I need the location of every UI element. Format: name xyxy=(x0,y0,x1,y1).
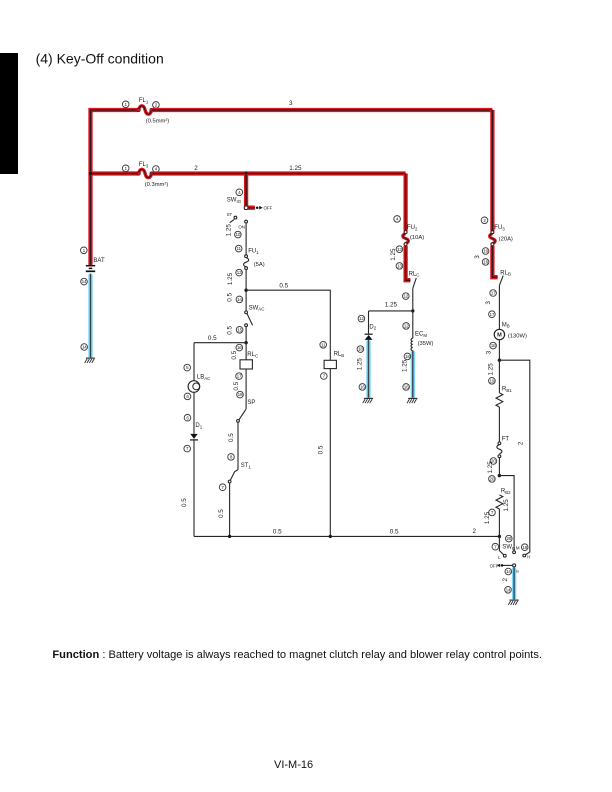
svg-text:0.5: 0.5 xyxy=(279,283,288,290)
wire node to RLC coil xyxy=(245,343,247,360)
blower switch SWB medium contact M xyxy=(513,546,520,554)
connector 18 xyxy=(490,342,497,349)
svg-text:SP: SP xyxy=(247,400,255,406)
connector (ECM ground) xyxy=(403,384,410,391)
diode D1 (cathode down) xyxy=(190,434,198,440)
connector 8 xyxy=(228,454,235,461)
connector 6b xyxy=(184,414,191,421)
svg-text:17: 17 xyxy=(237,374,242,379)
connector 1 (FL1 left) xyxy=(122,101,129,108)
svg-text:10: 10 xyxy=(236,232,241,237)
relay coil RLB (blower relay) xyxy=(324,360,336,368)
battery BAT xyxy=(86,266,95,272)
relay coil RLC (magnet clutch relay) xyxy=(240,360,252,369)
svg-text:ST1: ST1 xyxy=(241,463,252,469)
svg-text:H: H xyxy=(527,554,530,559)
connector 10 xyxy=(235,231,242,238)
connector (below FU3) xyxy=(482,248,489,255)
svg-text:M: M xyxy=(497,332,502,338)
svg-text:ECM: ECM xyxy=(415,332,427,338)
svg-text:1.25: 1.25 xyxy=(227,272,234,285)
connector 11 xyxy=(235,245,242,252)
wire lamp branch xyxy=(193,343,195,381)
svg-text:1.25: 1.25 xyxy=(503,499,510,512)
junction FT output node xyxy=(498,474,501,477)
svg-text:SWB: SWB xyxy=(502,545,515,551)
svg-text:ON: ON xyxy=(238,224,245,229)
connector 12 (D2) xyxy=(358,315,365,322)
svg-text:OFF: OFF xyxy=(264,206,273,211)
connector (SWB ground lower) xyxy=(505,587,512,594)
svg-text:BAT: BAT xyxy=(93,258,105,264)
svg-text:16: 16 xyxy=(404,384,409,389)
svg-text:FU2: FU2 xyxy=(407,225,418,231)
wire node to resistor RB1 xyxy=(498,360,500,393)
connector (battery ground upper) xyxy=(81,278,88,285)
svg-text:14: 14 xyxy=(82,345,87,350)
wire ST1 to bottom bus xyxy=(229,483,231,537)
wire junction to A/C switch xyxy=(245,290,247,311)
svg-text:0.5: 0.5 xyxy=(208,335,217,342)
switch position pointer OFF xyxy=(256,206,263,210)
svg-text:2: 2 xyxy=(472,528,476,535)
svg-text:RLB: RLB xyxy=(334,352,345,358)
svg-text:0.5: 0.5 xyxy=(226,326,233,335)
wire RB1 to fusible thermo FT xyxy=(498,407,500,442)
wire to blower relay coil RLB xyxy=(246,290,330,360)
svg-text:OFF: OFF xyxy=(490,563,499,568)
wire drop to ignition switch (bold red) xyxy=(246,174,255,208)
svg-text:14: 14 xyxy=(506,587,511,592)
wire node to lamp branch xyxy=(194,342,246,344)
blower switch SWB common pole + OFF pointer xyxy=(497,564,516,567)
wire ground lead (battery ground lead, blue highlight) xyxy=(88,274,92,358)
fusible link FL1 xyxy=(137,106,153,114)
svg-text:M: M xyxy=(516,546,520,551)
wire second bus (bold red) xyxy=(152,171,406,175)
svg-text:0.5: 0.5 xyxy=(231,350,238,359)
svg-text:3: 3 xyxy=(289,100,293,107)
svg-text:FT: FT xyxy=(502,437,510,443)
svg-text:SWAC: SWAC xyxy=(249,305,265,311)
wire battery positive lead + top bus left (bold red) xyxy=(91,110,139,265)
wire ground lead (ECM ground lead, blue highlight) xyxy=(411,351,415,398)
svg-text:(20A): (20A) xyxy=(499,236,513,242)
svg-text:18: 18 xyxy=(238,392,243,397)
svg-text:15: 15 xyxy=(237,327,242,332)
svg-text:(0.3mm²): (0.3mm²) xyxy=(145,182,169,188)
svg-text:(5A): (5A) xyxy=(254,262,265,268)
connector 1 (battery) xyxy=(81,247,88,254)
relay contact RLB (open blade) xyxy=(499,276,503,286)
svg-text:LBAC: LBAC xyxy=(197,375,210,381)
ground (battery) xyxy=(85,358,95,363)
connector 4 (above SWIG) xyxy=(236,189,243,196)
connector (SWB ground upper) xyxy=(505,568,512,575)
wire RLB coil to bottom bus xyxy=(329,369,331,537)
fuse FU2 (red) xyxy=(403,231,409,246)
connector (below FU2) xyxy=(396,246,403,253)
wire RLB contact to blower motor xyxy=(498,285,500,329)
wire lamp to diode D1 xyxy=(193,392,195,434)
svg-text:0.5: 0.5 xyxy=(390,529,399,536)
fuse FU1 xyxy=(244,255,249,270)
svg-text:14: 14 xyxy=(82,279,87,284)
svg-text:3: 3 xyxy=(486,350,493,354)
wire RLC coil to pressure switch SP xyxy=(245,369,247,409)
svg-text:FL3: FL3 xyxy=(139,162,149,168)
svg-text:2: 2 xyxy=(517,441,524,445)
svg-text:0.5: 0.5 xyxy=(318,445,325,454)
connector 4 (above FU2) xyxy=(394,216,401,223)
wire top bus to fuse FU3 (bold red) xyxy=(490,110,494,231)
connector (right of bus end) xyxy=(506,535,513,542)
connector 12 xyxy=(403,293,410,300)
connector 17 xyxy=(490,290,497,297)
ground (SWB) xyxy=(508,600,518,605)
svg-text:1.25: 1.25 xyxy=(487,363,494,376)
connector 1 (FL3 left) xyxy=(122,165,129,172)
thermo switch ST1 xyxy=(228,470,238,483)
svg-text:(10A): (10A) xyxy=(410,235,424,241)
svg-text:SWIG: SWIG xyxy=(227,198,242,204)
connector (above RLC contact) xyxy=(396,263,403,270)
junction motor output node xyxy=(498,359,501,362)
wire SP to thermo switch ST1 xyxy=(237,422,239,469)
connector 2 (FL1 right) xyxy=(153,102,160,109)
junction second bus / ignition switch drop xyxy=(244,172,247,175)
wire D1 to bottom bus xyxy=(193,441,195,537)
SWIG ON contact xyxy=(238,220,247,229)
blower motor MB xyxy=(494,329,504,339)
svg-text:12: 12 xyxy=(403,294,408,299)
junction RLB/bus xyxy=(329,535,332,538)
wire FU3 to RLB contact (bold red) xyxy=(492,246,497,277)
junction FU1 output node xyxy=(244,289,247,292)
connector (above ECM) xyxy=(403,323,410,330)
connector (below RB2) xyxy=(489,509,496,516)
connector 7 xyxy=(219,484,226,491)
ground (D2) xyxy=(363,398,373,403)
pressure switch SP (closed blade) xyxy=(237,409,246,422)
ignition switch SWIG common terminal xyxy=(244,206,248,210)
svg-text:FU3: FU3 xyxy=(494,225,505,231)
relay contact RLC (open blade) xyxy=(413,278,416,288)
svg-text:13: 13 xyxy=(397,263,402,268)
wire second bus left (bold red) xyxy=(91,171,139,175)
svg-text:14: 14 xyxy=(237,297,242,302)
wire FU1 to junction xyxy=(245,270,247,291)
wire ground lead (D2 ground lead, blue highlight) xyxy=(366,340,370,398)
svg-text:12: 12 xyxy=(359,316,364,321)
connector (above RLB coil) xyxy=(320,342,327,349)
svg-text:MB: MB xyxy=(502,322,510,328)
svg-text:(130W): (130W) xyxy=(508,333,527,339)
svg-text:(0.5mm²): (0.5mm²) xyxy=(146,119,170,125)
svg-text:RB2: RB2 xyxy=(501,489,511,495)
wire SWAC to node xyxy=(245,327,247,343)
connector (above RLB contact) xyxy=(482,259,489,266)
svg-text:18: 18 xyxy=(491,343,496,348)
svg-text:16: 16 xyxy=(237,345,242,350)
svg-text:B: B xyxy=(516,568,519,573)
svg-text:1.25: 1.25 xyxy=(484,511,491,524)
svg-text:2: 2 xyxy=(502,578,509,582)
svg-text:1.25: 1.25 xyxy=(401,359,408,372)
section tab bar xyxy=(0,53,18,174)
svg-text:D2: D2 xyxy=(369,324,376,330)
svg-text:18: 18 xyxy=(405,354,410,359)
svg-text:20: 20 xyxy=(490,476,495,481)
junction ST1/bus xyxy=(228,535,231,538)
blower switch SWB low contact L xyxy=(498,536,506,559)
svg-text:RLC: RLC xyxy=(409,271,420,277)
svg-text:1.25: 1.25 xyxy=(385,302,398,309)
svg-text:0.5: 0.5 xyxy=(228,433,235,442)
fusible link FL3 xyxy=(137,169,153,177)
connector 7 (below D1) xyxy=(184,445,191,452)
SWIG ST contact xyxy=(227,212,237,223)
svg-text:2: 2 xyxy=(194,165,198,172)
connector 2 (above FU3) xyxy=(481,217,488,224)
wire bottom control bus xyxy=(194,535,500,537)
wire top bus to right column (bold red) xyxy=(152,108,493,112)
svg-text:17: 17 xyxy=(491,291,496,296)
ground (ECM) xyxy=(407,398,417,403)
connector (left of SWB) xyxy=(492,543,499,550)
connector 20 xyxy=(490,458,497,465)
svg-text:RLB: RLB xyxy=(500,270,511,276)
connector (below ECM) xyxy=(404,353,411,360)
resistor RB2 xyxy=(496,495,503,509)
page number xyxy=(274,759,313,771)
svg-text:16: 16 xyxy=(483,249,488,254)
connector 17 xyxy=(236,373,243,380)
wire RLC contact to node xyxy=(412,288,414,311)
wire RB2 to bottom bus xyxy=(498,509,500,536)
svg-text:13: 13 xyxy=(237,270,242,275)
svg-text:17: 17 xyxy=(490,312,495,317)
connector 18 xyxy=(237,391,244,398)
svg-text:FL1: FL1 xyxy=(139,98,149,104)
svg-text:1.25: 1.25 xyxy=(487,461,494,474)
svg-text:19: 19 xyxy=(522,545,527,550)
svg-text:0.5: 0.5 xyxy=(233,381,240,390)
connector (battery ground lower) xyxy=(81,344,88,351)
resistor RB1 xyxy=(496,393,503,407)
connector 5 xyxy=(184,364,191,371)
svg-text:11: 11 xyxy=(237,246,242,251)
connector (SWB high side) xyxy=(521,544,528,551)
svg-text:ST: ST xyxy=(227,212,233,217)
svg-text:18: 18 xyxy=(358,347,363,352)
wire down to diode D2 xyxy=(368,311,370,334)
svg-text:0.5: 0.5 xyxy=(181,498,188,507)
junction bus / SWB low contact xyxy=(498,535,501,538)
function note xyxy=(52,649,542,661)
svg-text:RLC: RLC xyxy=(247,352,258,358)
svg-text:1.25: 1.25 xyxy=(226,224,233,237)
junction RLC contact output node xyxy=(411,309,414,312)
svg-text:16: 16 xyxy=(360,384,365,389)
svg-text:16: 16 xyxy=(483,259,488,264)
connector (D2 ground) xyxy=(359,384,366,391)
svg-text:12: 12 xyxy=(404,323,409,328)
connector (below D2) xyxy=(357,346,364,353)
svg-text:(35W): (35W) xyxy=(418,341,434,347)
svg-text:1.25: 1.25 xyxy=(357,358,364,371)
connector 4 (FL3 right) xyxy=(153,166,160,173)
svg-text:20: 20 xyxy=(506,536,511,541)
svg-text:1.25: 1.25 xyxy=(390,248,397,261)
svg-text:14: 14 xyxy=(506,569,511,574)
junction SWAC output node xyxy=(244,341,247,344)
wire motor to resistor node xyxy=(498,340,500,361)
svg-text:FU1: FU1 xyxy=(248,249,259,255)
svg-text:13: 13 xyxy=(397,247,402,252)
svg-text:19: 19 xyxy=(490,378,495,383)
connector 13 xyxy=(236,269,243,276)
connector 15 xyxy=(236,327,243,334)
thermal fuse FT xyxy=(497,442,502,458)
svg-text:(4) Key-Off condition: (4) Key-Off condition xyxy=(36,50,164,66)
blower switch SWB high contact H xyxy=(523,554,531,559)
condenser fan motor winding ECM xyxy=(411,338,413,350)
connector 6 xyxy=(184,393,191,400)
wire second bus to fuse FU2 (bold red) xyxy=(403,174,407,231)
svg-text:3: 3 xyxy=(474,255,481,259)
wire FT to resistor node 2 xyxy=(498,458,500,476)
wire node to SWB medium contact xyxy=(499,476,514,551)
svg-text:0.5: 0.5 xyxy=(218,509,225,518)
connector (below RLB coil) xyxy=(321,373,328,380)
svg-text:1.25: 1.25 xyxy=(289,165,302,172)
svg-text:0.5: 0.5 xyxy=(226,293,233,302)
svg-text:11: 11 xyxy=(321,342,326,347)
wire ground lead (SWB ground lead, blue highlight) xyxy=(512,567,516,599)
wire node to D2 branch xyxy=(369,310,413,312)
svg-text:RB1: RB1 xyxy=(502,387,512,393)
wire node to condenser motor ECM xyxy=(412,311,414,338)
connector 19 xyxy=(489,378,496,385)
connector 20b xyxy=(489,476,496,483)
diode D2 (cathode up) xyxy=(365,334,373,340)
junction left column / second bus xyxy=(89,172,92,175)
connector 14 xyxy=(236,296,243,303)
svg-text:D1: D1 xyxy=(195,423,202,429)
wire node to SWB high-speed contact xyxy=(499,360,529,555)
A/C switch SWAC (open) xyxy=(245,311,253,327)
svg-text:0.5: 0.5 xyxy=(273,529,282,536)
wire SWIG ON to fuse FU1 xyxy=(245,223,247,255)
connector 17b xyxy=(489,311,496,318)
wire FU2 to RLC contact (bold red) xyxy=(406,246,411,281)
connector 16 xyxy=(236,344,243,351)
fuse FU3 (red) xyxy=(490,231,496,246)
indicator lamp LBAC xyxy=(188,381,200,393)
svg-text:3: 3 xyxy=(485,301,492,305)
